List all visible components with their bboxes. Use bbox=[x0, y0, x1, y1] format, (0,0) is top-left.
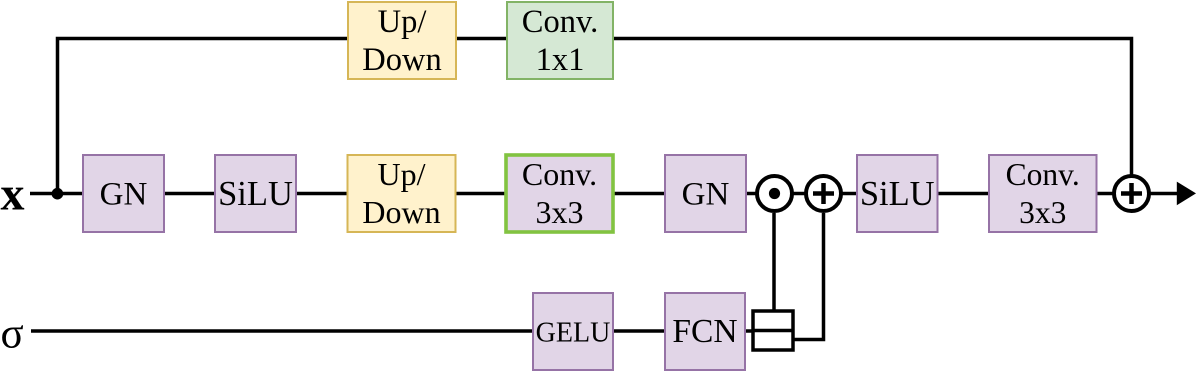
svg-text:x: x bbox=[1, 168, 25, 221]
wire: top rail right segment down to adder bbox=[613, 39, 1132, 175]
arrowhead: output bbox=[1177, 182, 1196, 206]
wire: Conv 3x3 to output adder bbox=[1097, 192, 1114, 196]
block SiLU (second) bbox=[857, 155, 938, 232]
block FCN bbox=[665, 293, 745, 370]
wire: GELU to FCN bbox=[613, 329, 665, 333]
wire: adder to SiLU bbox=[842, 192, 857, 196]
wire: GN to SiLU bbox=[164, 192, 215, 196]
wire: sigma input rail to GELU bbox=[31, 329, 533, 333]
wire: SiLU to Up/Down bbox=[296, 192, 348, 196]
wire: between Up/Down top and Conv 1x1 bbox=[456, 37, 507, 41]
block Conv 3x3 (main path, green highlighted border) bbox=[506, 155, 613, 232]
wire: GN to multiplier bbox=[746, 192, 756, 196]
wire: output arrow line bbox=[1150, 192, 1180, 196]
wire: FCN to split box bbox=[745, 329, 753, 333]
svg-text:1x1: 1x1 bbox=[536, 42, 585, 78]
wire: split box top cell up to multiplier bbox=[772, 213, 776, 311]
node: junction dot on x input bbox=[52, 188, 64, 200]
operator: output adder (plus in circle) bbox=[1114, 176, 1149, 211]
block Up/Down (skip path) bbox=[348, 2, 456, 79]
block SiLU (first) bbox=[215, 155, 296, 232]
svg-text:Conv.: Conv. bbox=[522, 4, 598, 40]
operator: multiplier (dot in circle) bbox=[757, 176, 792, 211]
svg-text:Conv.: Conv. bbox=[1006, 157, 1080, 192]
block GN (second) bbox=[665, 155, 746, 232]
svg-text:Down: Down bbox=[362, 42, 441, 78]
wire: multiplier to adder bbox=[793, 192, 805, 196]
block Up/Down (main path) bbox=[348, 155, 456, 232]
wire: Conv 3x3 to GN bbox=[613, 192, 665, 196]
svg-text:Down: Down bbox=[362, 194, 440, 230]
wire: skip-connection top rail bbox=[58, 39, 349, 194]
svg-text:SiLU: SiLU bbox=[218, 175, 293, 213]
block GN (first) bbox=[83, 155, 164, 232]
component: split box (scale/shift chunk) bbox=[753, 311, 793, 350]
svg-text:GN: GN bbox=[100, 177, 148, 213]
block Conv 3x3 (output) bbox=[989, 155, 1097, 232]
operator: adder (plus in circle, scale-shift) bbox=[806, 176, 841, 211]
block GELU bbox=[533, 293, 613, 370]
svg-text:3x3: 3x3 bbox=[536, 194, 584, 230]
svg-text:Up/: Up/ bbox=[378, 4, 428, 40]
wire: split box bottom cell to adder bbox=[793, 213, 824, 340]
svg-text:σ: σ bbox=[1, 311, 24, 358]
svg-text:GN: GN bbox=[682, 177, 730, 213]
svg-text:GELU: GELU bbox=[536, 317, 611, 348]
block Conv 1x1 (skip path) bbox=[507, 2, 613, 79]
svg-text:3x3: 3x3 bbox=[1019, 195, 1066, 230]
svg-text:FCN: FCN bbox=[672, 313, 737, 350]
wire: x input to GN bbox=[30, 192, 83, 196]
wire: Up/Down to Conv 3x3 bbox=[456, 192, 507, 196]
wire: SiLU to Conv 3x3 bbox=[938, 192, 990, 196]
svg-text:Conv.: Conv. bbox=[522, 156, 597, 192]
svg-text:Up/: Up/ bbox=[378, 156, 426, 192]
svg-text:SiLU: SiLU bbox=[860, 175, 935, 213]
